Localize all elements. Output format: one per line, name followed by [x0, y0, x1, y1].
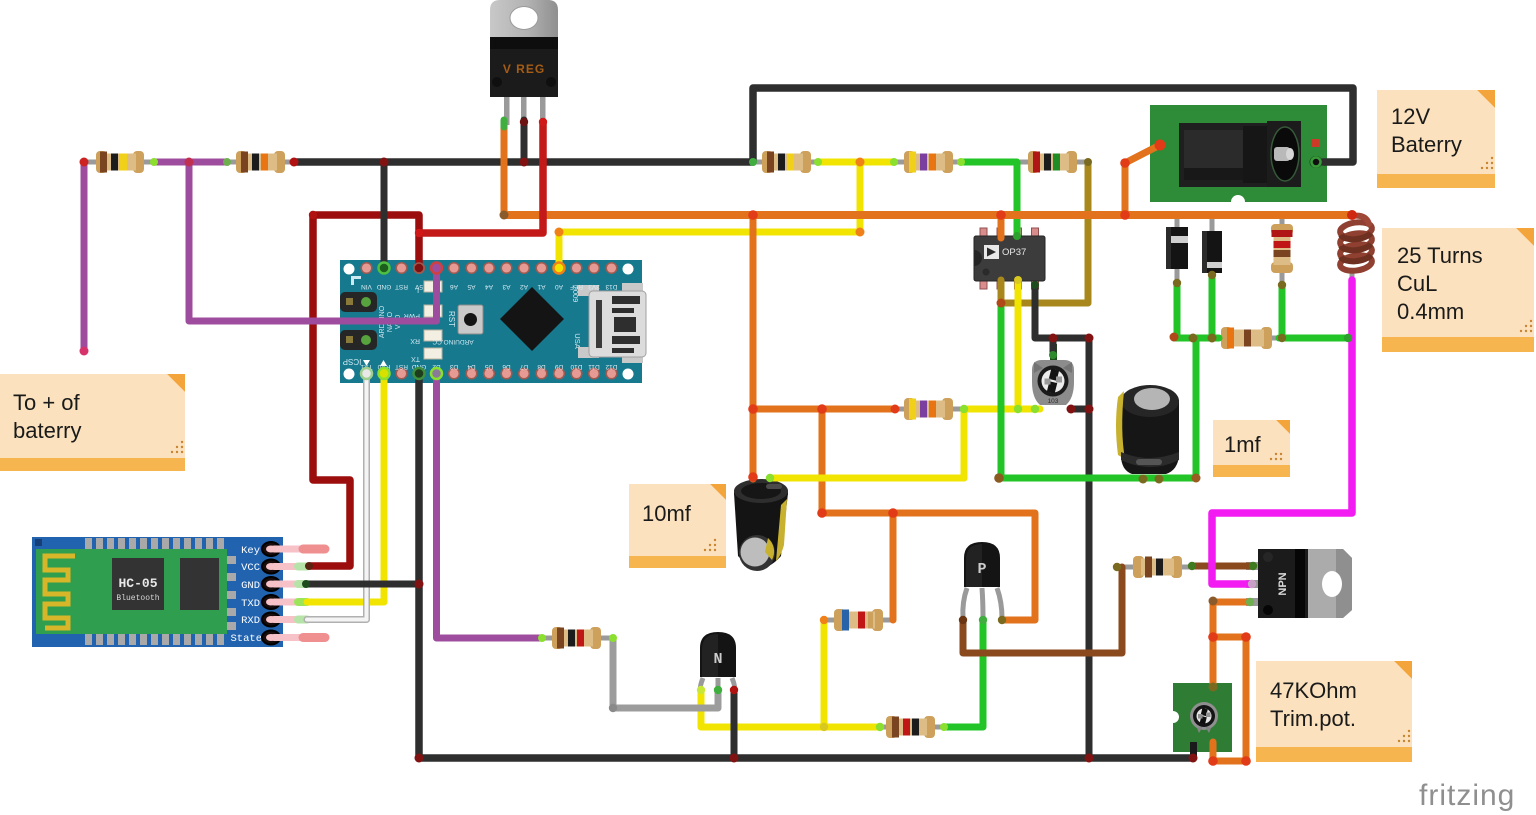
node: HC-05 wire ends — [305, 562, 313, 570]
HC-05 chip1 — [112, 558, 164, 610]
svg-text:A5: A5 — [467, 283, 475, 290]
capacitor C2 (1mf electrolytic) — [1116, 385, 1179, 474]
wire: red V REG pin3 — [419, 122, 543, 233]
trim pot RV2 (47KOhm on PCB) — [1167, 683, 1232, 759]
node: diode greens — [1170, 333, 1179, 342]
junction dots and wire end caps — [80, 118, 1358, 766]
svg-text:5V: 5V — [414, 283, 423, 290]
wire: orange RV2 loop — [1213, 637, 1246, 761]
wire: orange V REG pin1 down — [501, 126, 508, 215]
op-amp U1 (OP37 DIP-8) — [974, 228, 1045, 289]
green caps VCC GND TXD RXD — [298, 563, 307, 571]
resistor R6 (yellow-violet-orange) — [895, 398, 964, 420]
svg-text:To + of: To + of — [13, 390, 81, 415]
wire: orange branch down — [819, 409, 826, 513]
nano LED PWR — [424, 305, 442, 317]
node: resistor row lead dots — [749, 158, 757, 166]
svg-text:GND: GND — [241, 580, 260, 592]
transistor Q3 (NPN TO-220) — [1246, 549, 1352, 618]
svg-text:RST: RST — [447, 311, 456, 327]
nano bottom pin labels — [360, 363, 617, 370]
wire: orange down to C1 — [750, 215, 757, 479]
wire: green diode D2 down — [1209, 275, 1216, 338]
svg-text:OP37: OP37 — [1002, 247, 1026, 258]
diode D2 — [1202, 215, 1222, 283]
note: 10mf — [629, 484, 726, 568]
svg-text:baterry: baterry — [13, 418, 81, 443]
wire: black GND bottom bus — [419, 374, 1193, 759]
node: yellow corners A0 net — [555, 228, 564, 237]
svg-text:NPN: NPN — [1277, 572, 1289, 595]
jack pin2 pad — [1310, 157, 1322, 168]
resistor R3 (brown-black-yellow) — [753, 151, 818, 173]
wire: orange row to R6 — [753, 406, 895, 413]
voltage regulator U4 (V REG TO-220) — [490, 0, 558, 125]
trimmer RV1 (103) — [1032, 344, 1074, 405]
node: Q1 leg caps — [697, 686, 705, 694]
HC-05 antenna trace — [45, 556, 75, 628]
wire: orange to Q2 collector — [822, 513, 1035, 620]
svg-text:A4: A4 — [485, 283, 493, 290]
barrel jack PCB J1 — [1150, 105, 1327, 209]
wire: black V REG pin2 — [521, 120, 528, 162]
nano RST button — [458, 305, 483, 334]
svg-text:D4: D4 — [467, 363, 476, 370]
wire: black Q1 collector — [731, 691, 738, 758]
svg-text:RST: RST — [395, 363, 408, 370]
wire: green right of R11 — [1279, 335, 1348, 342]
node: black net RV1 — [1049, 334, 1058, 343]
svg-text:47KOhm: 47KOhm — [1270, 678, 1357, 703]
note: 25 Turns CuL 0.4mm — [1382, 228, 1534, 352]
svg-text:P: P — [977, 561, 986, 578]
nano mini-USB — [578, 285, 599, 296]
wire: yellow R6 to RV1 — [964, 406, 1040, 413]
HC-05 chip2 — [180, 558, 219, 610]
wire: black OP37 pin5 to RV1 and down — [1035, 285, 1089, 338]
node: V REG pin2 junction — [520, 158, 529, 167]
resistor R1 (brown-black-yellow) — [84, 151, 154, 173]
note: 1mf — [1213, 420, 1290, 477]
svg-text:USA: USA — [573, 333, 582, 348]
svg-text:0.4mm: 0.4mm — [1397, 299, 1464, 324]
resistor R12 vertical (red-red-brown) — [1271, 215, 1293, 285]
wire: green diode row left — [1174, 335, 1219, 342]
nano bottom pin row — [361, 368, 617, 379]
svg-text:CuL: CuL — [1397, 271, 1437, 296]
wire: orange main bus — [504, 211, 1352, 219]
node: Q3 pin caps — [1248, 580, 1256, 588]
wire: orange to jack pin1 — [1125, 145, 1160, 215]
svg-text:25 Turns: 25 Turns — [1397, 243, 1483, 268]
wire: yellow A0 to resistor row — [559, 162, 860, 268]
svg-text:D13: D13 — [605, 283, 617, 290]
svg-text:A3: A3 — [502, 283, 510, 290]
wire: white HC-05 RXD to TX1 — [307, 374, 367, 620]
HC-05 pin bumps — [262, 542, 280, 645]
nano silk texts — [379, 286, 582, 349]
resistor R4 (yellow-violet-orange) — [894, 151, 961, 173]
svg-text:1mf: 1mf — [1224, 432, 1262, 457]
wire: black HC-05 GND — [307, 581, 419, 588]
wire: orange to R8 — [890, 513, 897, 620]
wire: green diode D1 down — [1174, 283, 1181, 338]
inductor L1 (coil 25 turns) — [1339, 216, 1373, 282]
node: jack pin2 ring — [1312, 158, 1321, 167]
nano LED L — [424, 281, 442, 292]
wire: dark yellow R5 to OP37 pin6 — [1001, 162, 1088, 303]
svg-text:3V3: 3V3 — [588, 283, 600, 290]
wire: magenta coil to Q3 pin2 — [1212, 280, 1352, 584]
note: 47KOhm Trim.pot. — [1256, 661, 1412, 762]
svg-text:RX: RX — [410, 337, 420, 344]
wire: dark red 5V net to HC-05 VCC — [310, 215, 419, 566]
node: purple junction — [185, 158, 194, 167]
svg-text:D8: D8 — [537, 363, 546, 370]
svg-text:D12: D12 — [605, 363, 617, 370]
svg-text:12V: 12V — [1391, 104, 1430, 129]
node: OP37 pin wire ends — [1013, 232, 1021, 240]
wire: black stub RV1 bottom — [1071, 406, 1089, 413]
resistor R7 (brown-black-red) — [542, 627, 613, 649]
svg-text:RXD: RXD — [241, 615, 260, 627]
svg-text:Baterry: Baterry — [1391, 132, 1462, 157]
wire: orange Q3 pin3 to RV2 top — [1213, 602, 1249, 687]
node: green net — [997, 299, 1006, 308]
svg-text:D5: D5 — [484, 363, 493, 370]
wire stub Key (nc) — [303, 545, 325, 554]
wire: purple D2 to R7 — [437, 374, 543, 639]
wire: orange OP37 pin2 — [998, 215, 1005, 238]
wire: purple between R1 R2 — [154, 159, 227, 166]
svg-text:D11: D11 — [588, 363, 600, 370]
wire: yellow HC-05 TXD to RX0 — [307, 374, 384, 603]
diode D1 — [1166, 215, 1188, 283]
svg-text:D7: D7 — [519, 363, 528, 370]
wire: black GND top — [381, 162, 388, 268]
svg-text:VCC: VCC — [241, 562, 260, 574]
svg-text:D3: D3 — [449, 363, 458, 370]
HC-05 pin labels — [230, 545, 262, 645]
nano LED TX — [424, 348, 442, 359]
node: R1 left / purple end — [80, 158, 89, 167]
svg-text:D6: D6 — [502, 363, 511, 370]
svg-text:V REG: V REG — [503, 62, 545, 76]
wire: black long vertical — [1086, 338, 1093, 758]
transistor Q1 (NPN TO-92 "N") — [700, 632, 736, 691]
wire: gray R7 to Q1 base — [613, 638, 718, 708]
svg-text:HC-05: HC-05 — [118, 576, 157, 591]
transistor Q2 (PNP TO-92 "P") — [963, 542, 1002, 618]
svg-text:Bluetooth: Bluetooth — [116, 594, 159, 603]
resistor R10 (brown-black) — [1117, 556, 1192, 578]
resistor R2 (brown-black-orange) — [227, 151, 294, 173]
Arduino Nano U2 — [340, 260, 646, 383]
svg-text:VIN: VIN — [361, 283, 372, 290]
svg-text:GND: GND — [376, 283, 391, 290]
svg-text:TXD: TXD — [241, 598, 260, 610]
resistor R11 (orange-brown) — [1216, 327, 1281, 349]
svg-text:D10: D10 — [570, 363, 582, 370]
svg-text:103: 103 — [1048, 398, 1059, 405]
nano ICSP header — [340, 292, 377, 312]
wire: yellow between R3 R4 — [818, 159, 894, 166]
capacitor C1 (10mf electrolytic) — [734, 479, 788, 571]
note: 12V Baterry — [1377, 90, 1495, 188]
node: yellow bottom row — [820, 723, 828, 731]
svg-text:A1: A1 — [537, 283, 545, 290]
resistor R5 (red-black-green) — [1020, 151, 1088, 173]
HC-05 pin stubs — [274, 549, 302, 638]
node: coil top — [1347, 210, 1357, 220]
node: orange RV2 net — [1209, 597, 1218, 606]
node: orange net mid — [748, 404, 758, 414]
wire: green OP37 pin6 down — [998, 303, 1005, 478]
svg-text:TX: TX — [411, 355, 420, 362]
svg-text:REF: REF — [570, 283, 583, 290]
svg-text:A2: A2 — [520, 283, 528, 290]
svg-text:A0: A0 — [555, 283, 563, 290]
wire: brown R10 to Q3 pin1 — [1192, 563, 1253, 570]
node: GND top junction — [380, 158, 389, 167]
svg-text:ICSP: ICSP — [343, 357, 362, 366]
HC-05 bluetooth module U3 — [32, 537, 325, 647]
svg-text:10mf: 10mf — [642, 501, 692, 526]
node: V REG pin caps — [539, 118, 547, 126]
svg-text:State: State — [230, 633, 262, 645]
nano ATmega chip — [500, 287, 564, 351]
wire: purple A7 to left resistors — [189, 162, 437, 321]
wire: yellow OP37 pin7 down — [1015, 280, 1022, 409]
svg-text:ARDUINO.CC: ARDUINO.CC — [432, 338, 473, 345]
node: orange bus junctions — [500, 211, 509, 220]
wire: green cap V REG pin1 — [501, 120, 508, 127]
wire: black top bus to battery jack — [294, 88, 1353, 162]
wire: black stub RV1 top — [1050, 338, 1057, 352]
wire: yellow down from R6 — [961, 409, 968, 478]
svg-text:N: N — [713, 651, 722, 668]
note: To + of baterry — [0, 374, 185, 471]
wire: brown Q2 emitter to R10 — [963, 567, 1122, 653]
nano LED RX — [424, 330, 442, 341]
wire: green C2 row up right — [1001, 338, 1196, 478]
node: brown net — [1113, 563, 1121, 571]
wire: yellow Q1 emitter — [701, 691, 878, 727]
svg-text:A6: A6 — [450, 283, 458, 290]
node: Q2 leg caps — [959, 616, 967, 624]
node: GND net junctions — [415, 580, 424, 589]
nano pin rings for connected pins — [361, 263, 565, 380]
svg-text:Trim.pot.: Trim.pot. — [1270, 706, 1356, 731]
wire: purple stub left — [81, 162, 88, 350]
wire: yellow R8 to row — [821, 620, 828, 727]
svg-text:Key: Key — [241, 545, 260, 557]
svg-text:RST: RST — [395, 283, 408, 290]
wire: yellow C1 negative — [770, 475, 964, 482]
svg-text:fritzing: fritzing — [1419, 779, 1515, 812]
wire: green R9 to Q2 base — [944, 620, 983, 727]
node: R2 right — [290, 158, 299, 167]
node: 5V corner — [309, 211, 317, 219]
resistor R8 (blue-red) — [824, 609, 893, 631]
resistor R9 (brown-red-black) — [878, 716, 944, 738]
nano top pin row — [361, 263, 617, 274]
svg-text:D9: D9 — [554, 363, 563, 370]
nano top pin labels — [361, 283, 618, 290]
wire stub State (nc) — [303, 633, 325, 642]
wire: green R12 down — [1279, 285, 1286, 338]
wire: green R4 to OP37 pin3 — [961, 162, 1017, 236]
